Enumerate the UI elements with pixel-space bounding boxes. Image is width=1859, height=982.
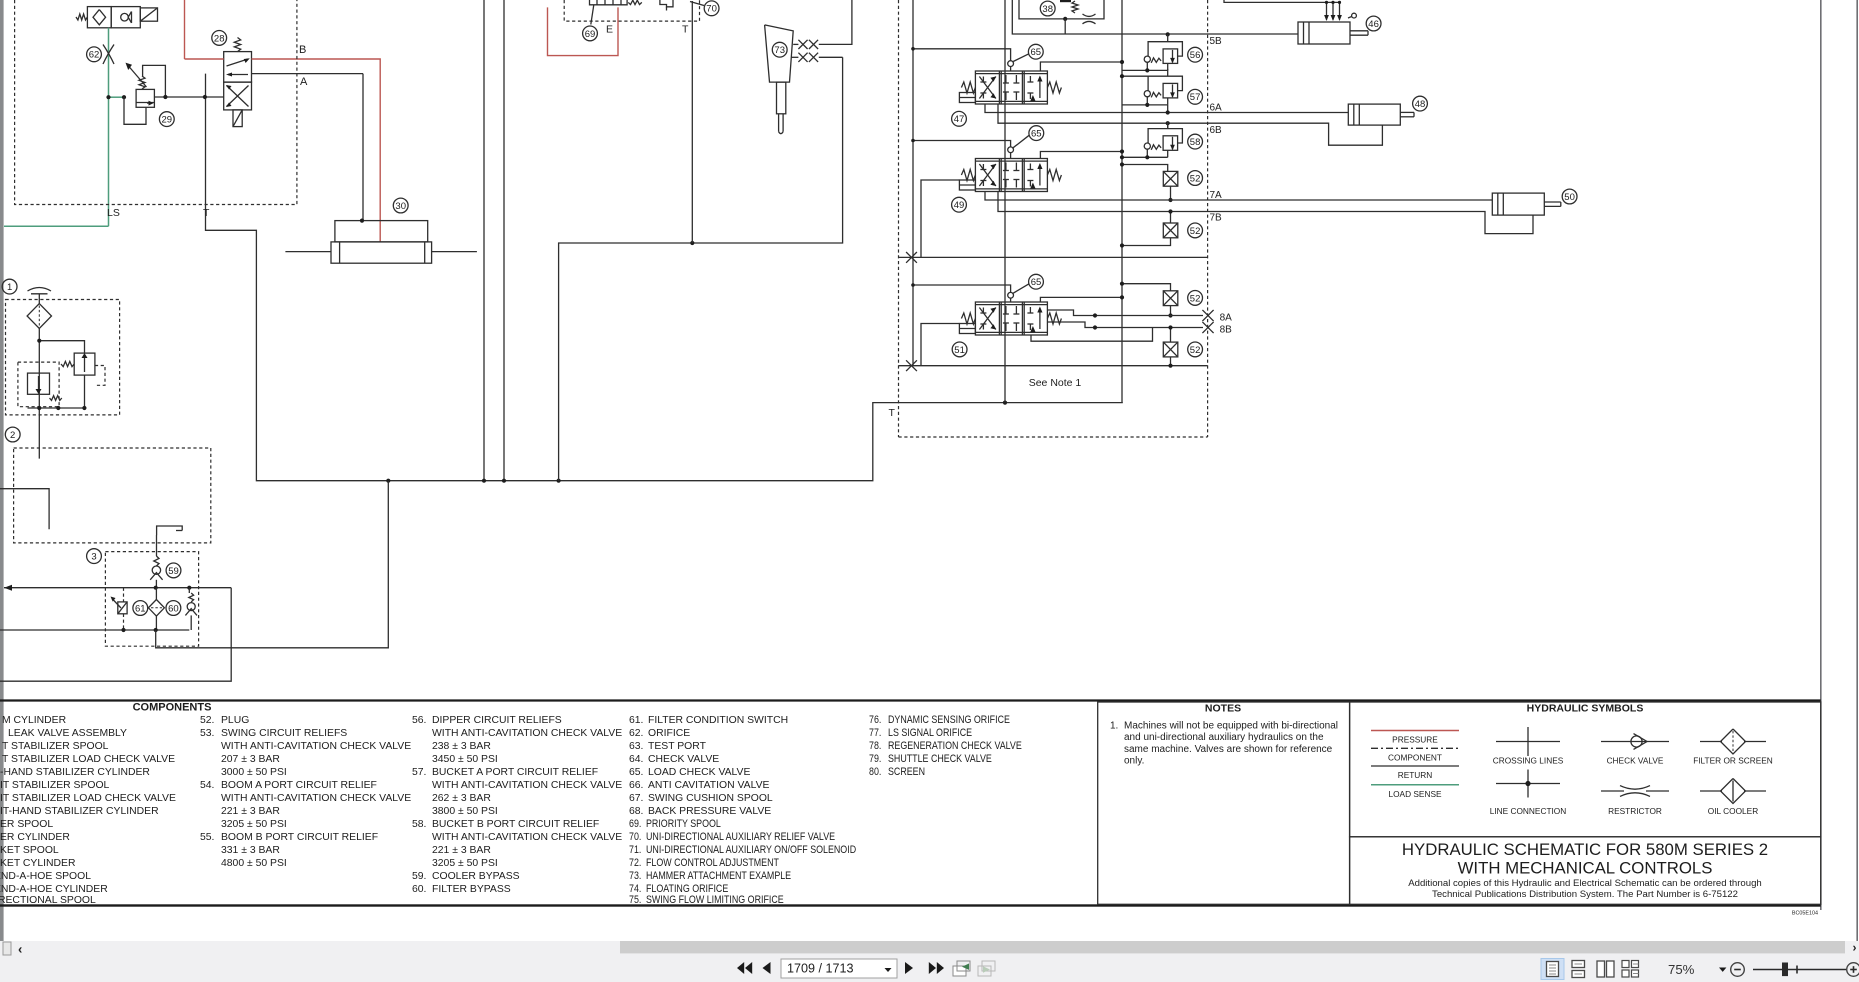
svg-text:51: 51 [954, 345, 965, 356]
wire hammer lower [819, 56, 843, 58]
circle label 49 [952, 197, 967, 212]
svg-text:DYNAMIC SENSING ORIFICE: DYNAMIC SENSING ORIFICE [888, 714, 1010, 726]
wire 7B [998, 192, 1533, 234]
wire B red [185, 58, 224, 60]
svg-text:OIL COOLER: OIL COOLER [1708, 806, 1758, 816]
svg-text:69: 69 [585, 29, 596, 40]
toolbar background [0, 941, 1859, 982]
dashed enclosure control valve left [898, 0, 900, 437]
svg-text:72.: 72. [629, 857, 641, 869]
circle label 52c [1188, 291, 1203, 306]
spool 51 [959, 302, 1061, 335]
svg-text:61.: 61. [629, 715, 643, 726]
circle label 50 [1562, 189, 1577, 204]
wire priority T drop [691, 1, 693, 243]
svg-text:65.: 65. [629, 767, 643, 778]
spool 47 [959, 71, 1061, 104]
check valve assembly diamond [93, 10, 106, 25]
svg-text:49: 49 [954, 200, 965, 211]
svg-text:58: 58 [1190, 137, 1201, 148]
svg-text:BOOM A PORT CIRCUIT RELIEF: BOOM A PORT CIRCUIT RELIEF [221, 780, 377, 791]
junction dot 38 [1063, 17, 1067, 21]
page number box [781, 959, 897, 978]
svg-text:331 ± 3 BAR: 331 ± 3 BAR [221, 845, 280, 856]
svg-text:61: 61 [135, 603, 146, 614]
svg-text:3450 ± 50 PSI: 3450 ± 50 PSI [432, 754, 498, 765]
svg-text:52: 52 [1190, 226, 1201, 237]
svg-text:BACK PRESSURE VALVE: BACK PRESSURE VALVE [648, 806, 771, 817]
svg-text:1709 / 1713: 1709 / 1713 [787, 962, 854, 976]
valve 28 spring [234, 38, 240, 52]
svg-text:SHUTTLE CHECK VALVE: SHUTTLE CHECK VALVE [888, 753, 992, 765]
svg-text:LINE CONNECTION: LINE CONNECTION [1490, 806, 1567, 816]
cylinder 46 piston [1303, 22, 1305, 44]
svg-text:PRESSURE: PRESSURE [1392, 735, 1438, 745]
plug 52 c [1163, 291, 1178, 306]
wire LS green vertical [108, 28, 110, 227]
svg-text:IT-HAND STABILIZER CYLINDER: IT-HAND STABILIZER CYLINDER [0, 806, 159, 817]
cylinder 46 rod [1350, 30, 1368, 32]
cylinder 30 rod right [432, 251, 477, 253]
svg-text:52.: 52. [200, 715, 214, 726]
svg-text:Additional copies of this Hydr: Additional copies of this Hydraulic and … [1408, 878, 1762, 889]
zoom out icon [1731, 963, 1745, 977]
svg-text:same machine. Valves are shown: same machine. Valves are shown for refer… [1124, 744, 1333, 755]
svg-text:63.: 63. [629, 741, 643, 752]
symbols box [1350, 702, 1821, 837]
svg-text:29: 29 [162, 115, 173, 126]
wire LS green stub to relief 29 [109, 96, 125, 98]
floating orifice 60 diamond [148, 600, 164, 617]
hscrollbar thumb [620, 941, 1845, 953]
wire supply vertical V2 [503, 0, 505, 481]
svg-text:BC05E104: BC05E104 [1792, 911, 1818, 917]
svg-text:4800 ± 50 PSI: 4800 ± 50 PSI [221, 858, 287, 869]
circle label 52a [1188, 171, 1203, 186]
wire 8A [1047, 310, 1203, 316]
svg-text:See Note 1: See Note 1 [1029, 377, 1082, 389]
valve 28 solenoid tail [233, 110, 242, 127]
solenoid 63 box [140, 8, 157, 21]
wire LS green bottom elbow [4, 225, 109, 227]
circle label 52d [1188, 342, 1203, 357]
svg-text:BUCKET B PORT CIRCUIT RELIEF: BUCKET B PORT CIRCUIT RELIEF [432, 819, 599, 830]
circuit relief 57 [1122, 69, 1182, 107]
svg-text:RECTIONAL SPOOL: RECTIONAL SPOOL [0, 895, 96, 906]
circle label 47 [952, 111, 967, 126]
relief valve 29 body [136, 89, 154, 107]
svg-text:only.: only. [1124, 756, 1144, 767]
svg-text:221 ± 3 BAR: 221 ± 3 BAR [221, 806, 280, 817]
cylinder 48 body [1348, 104, 1400, 125]
cylinder 30 rod left [285, 251, 331, 253]
valve 28 lower box [224, 82, 252, 110]
wire 7A [985, 192, 1492, 201]
wire cooler return loop [0, 588, 231, 682]
relief valve 29 adjust arrow [129, 66, 147, 87]
svg-text:LOAD SENSE: LOAD SENSE [1388, 789, 1441, 799]
svg-text:Technical Publications Distrib: Technical Publications Distribution Syst… [1432, 889, 1738, 900]
spool 49 [959, 159, 1061, 192]
svg-text:3800 ± 50 PSI: 3800 ± 50 PSI [432, 806, 498, 817]
svg-text:FILTER CONDITION SWITCH: FILTER CONDITION SWITCH [648, 715, 788, 726]
leader 65b [1013, 135, 1029, 147]
svg-text:T: T [203, 207, 210, 219]
svg-text:65: 65 [1031, 129, 1042, 140]
wire plug4 bottom [1170, 357, 1172, 366]
symbol oil cooler [1700, 790, 1722, 792]
hammer quick couplers lower [798, 53, 807, 62]
legend top border [0, 699, 1821, 701]
layout icon continuous [1572, 961, 1585, 968]
wire 60 vertical [155, 588, 157, 600]
spool49 actuator drop [921, 180, 959, 257]
circle label 2 [5, 427, 20, 442]
valve 28 upper arrow2 [228, 74, 248, 76]
svg-text:262 ± 3 BAR: 262 ± 3 BAR [432, 793, 491, 804]
svg-text:46: 46 [1368, 19, 1379, 30]
filter bottom wires [28, 407, 85, 409]
svg-text:77.: 77. [869, 727, 881, 739]
circle label 60 [166, 601, 181, 616]
svg-text:FILTER BYPASS: FILTER BYPASS [432, 884, 511, 895]
svg-text:8A: 8A [1220, 313, 1233, 324]
circuit relief 57 drop [1167, 105, 1169, 113]
svg-text:SWING CUSHION SPOOL: SWING CUSHION SPOOL [648, 793, 773, 804]
circuit relief 58 top [1167, 123, 1169, 128]
svg-text:SWING FLOW LIMITING ORIFICE: SWING FLOW LIMITING ORIFICE [646, 894, 784, 906]
svg-text:55.: 55. [200, 832, 214, 843]
svg-text:BUCKET A PORT CIRCUIT RELIEF: BUCKET A PORT CIRCUIT RELIEF [432, 767, 598, 778]
svg-text:FLOW CONTROL ADJUSTMENT: FLOW CONTROL ADJUSTMENT [646, 857, 779, 869]
svg-text:62.: 62. [629, 728, 643, 739]
svg-text:57.: 57. [412, 767, 426, 778]
svg-text:69.: 69. [629, 818, 641, 830]
wire relief 29 outlet [154, 96, 223, 98]
svg-text:IT STABILIZER LOAD CHECK VALVE: IT STABILIZER LOAD CHECK VALVE [0, 793, 176, 804]
svg-text:T: T [682, 24, 689, 36]
crossing blocked lower [906, 360, 917, 371]
main relief 38 solenoid fragment [1060, 0, 1071, 2]
junction dots relief 29 [163, 95, 167, 99]
svg-text:and uni-directional auxiliary: and uni-directional auxiliary hydraulics… [1124, 732, 1324, 743]
svg-text:CHECK VALVE: CHECK VALVE [648, 754, 719, 765]
svg-text:A: A [300, 76, 308, 88]
svg-text:CROSSING LINES: CROSSING LINES [1493, 756, 1564, 766]
svg-text:60.: 60. [412, 884, 426, 895]
svg-text:UNI-DIRECTIONAL AUXILIARY ON/O: UNI-DIRECTIONAL AUXILIARY ON/OFF SOLENOI… [646, 844, 856, 856]
leader line 69 [591, 5, 594, 25]
svg-text:3000 ± 50 PSI: 3000 ± 50 PSI [221, 767, 287, 778]
load check pilot o 51 [1008, 292, 1014, 298]
notes box [1098, 702, 1350, 904]
svg-text:62: 62 [89, 50, 100, 61]
junction dot cylinder30 [360, 219, 364, 223]
wire plug1 drop [1170, 186, 1172, 200]
svg-text:LEAK VALVE ASSEMBLY: LEAK VALVE ASSEMBLY [8, 728, 127, 739]
svg-text:ANTI CAVITATION VALVE: ANTI CAVITATION VALVE [648, 780, 770, 791]
check valve 59 spring [154, 556, 159, 566]
svg-text:47: 47 [954, 114, 965, 125]
wire 6A [985, 104, 1348, 113]
pilot feed 47 [913, 49, 1011, 61]
wire T-bus mid [559, 57, 843, 480]
wire plug2 top [1170, 212, 1172, 224]
coupler 8A [1202, 310, 1213, 321]
svg-text:59.: 59. [412, 871, 426, 882]
svg-text:1.: 1. [1110, 721, 1118, 732]
main relief 38 inner box [1019, 0, 1104, 19]
svg-text:76.: 76. [869, 714, 881, 726]
pilot feed 49 [913, 141, 1011, 147]
filter drop wire [38, 328, 40, 458]
main relief 38 outer box [1012, 0, 1166, 34]
svg-text:2: 2 [10, 430, 15, 441]
crossing blocked upper [906, 252, 917, 263]
svg-text:52: 52 [1190, 345, 1201, 356]
plug 52 a [1163, 171, 1178, 186]
cylinder 48 piston [1353, 104, 1355, 125]
junction dots on bottom bus [386, 479, 390, 483]
valve 28 upper arrow [227, 59, 249, 66]
circle label 57 [1188, 89, 1203, 104]
svg-text:53.: 53. [200, 728, 214, 739]
relief valve 29 pilot bracket [143, 65, 166, 97]
main relief 38 spring [1072, 1, 1078, 13]
wire plug3 top elbow [1122, 284, 1171, 291]
wire pilot into spool 47 [1010, 67, 1012, 72]
cylinder 50 rod [1544, 201, 1561, 203]
circuit relief 58 [1122, 121, 1182, 159]
drain line cyl46 [1224, 0, 1340, 2]
svg-text:FILTER OR SCREEN: FILTER OR SCREEN [1693, 756, 1773, 766]
svg-text:‹: ‹ [18, 942, 22, 957]
wire 8B [1047, 322, 1203, 328]
legend load sense line [1371, 784, 1459, 786]
relief valve 29 drain loop [124, 97, 146, 124]
wire plug4 top [1170, 328, 1172, 343]
page right border [1820, 0, 1822, 910]
wire 61 dashed drop [123, 588, 125, 602]
wire 5B line [1167, 33, 1298, 35]
main relief 38 venturi [1083, 14, 1096, 16]
symbol restrictor [1601, 790, 1624, 792]
cylinder 50 piston [1497, 193, 1499, 215]
dashed enclosure 2 [14, 448, 211, 543]
title block box [1350, 837, 1821, 905]
wire block line upper [899, 256, 1208, 258]
svg-text:68.: 68. [629, 806, 643, 817]
wire cooler inlet arrow [4, 587, 124, 589]
solenoid spring W [76, 14, 87, 20]
svg-text:-HAND STABILIZER CYLINDER: -HAND STABILIZER CYLINDER [0, 767, 150, 778]
check ball symbol [121, 13, 129, 21]
svg-text:KET SPOOL: KET SPOOL [0, 845, 59, 856]
svg-text:WITH ANTI-CAVITATION CHECK VAL: WITH ANTI-CAVITATION CHECK VALVE [432, 728, 622, 739]
hammer body 73 [765, 25, 794, 82]
dashed enclosure priority valve [564, 0, 699, 21]
zoom caret [1719, 968, 1726, 972]
svg-text:221 ± 3 BAR: 221 ± 3 BAR [432, 845, 491, 856]
circle label 69 [583, 26, 598, 41]
svg-text:LOAD CHECK VALVE: LOAD CHECK VALVE [648, 767, 750, 778]
svg-text:80.: 80. [869, 766, 881, 778]
wire B red right [252, 59, 381, 242]
junction dot T-bus [690, 241, 694, 245]
bypass relief spring [61, 361, 74, 366]
check valve 64 [187, 603, 195, 611]
circle label 38 [1040, 1, 1055, 16]
circuit relief 56 [1122, 34, 1182, 72]
hammer quick couplers upper [798, 40, 807, 49]
wire hammer stubs [793, 43, 798, 45]
wire valve70 stub [666, 7, 668, 11]
svg-text:LS: LS [107, 207, 120, 219]
svg-text:WITH ANTI-CAVITATION CHECK VAL: WITH ANTI-CAVITATION CHECK VALVE [221, 793, 411, 804]
wire bracket to 59 [156, 535, 158, 556]
load check pilot o 49 [1008, 147, 1014, 153]
filter bypass branch top [39, 341, 84, 353]
nav last page icon [929, 962, 936, 974]
legend return line [1371, 765, 1459, 767]
svg-text:73.: 73. [629, 870, 641, 882]
layout icon single page [1541, 959, 1564, 980]
svg-text:30: 30 [395, 201, 406, 212]
svg-text:WITH MECHANICAL CONTROLS: WITH MECHANICAL CONTROLS [1458, 859, 1713, 878]
svg-text:48: 48 [1415, 99, 1426, 110]
svg-text:8B: 8B [1220, 325, 1233, 336]
wire cooler top line [124, 587, 232, 589]
svg-text:75%: 75% [1668, 962, 1695, 977]
svg-text:END-A-HOE CYLINDER: END-A-HOE CYLINDER [0, 884, 108, 895]
circuit relief 57 link [1122, 75, 1148, 77]
svg-text:38: 38 [1042, 4, 1053, 15]
svg-text:3: 3 [91, 552, 96, 563]
wire cooler outlet [156, 481, 389, 648]
svg-text:52: 52 [1190, 293, 1201, 304]
breather arc [28, 288, 52, 292]
flow control 61 arrow [112, 599, 121, 609]
circle label 59 [166, 563, 181, 578]
wire block line lower [899, 365, 1208, 367]
svg-text:65: 65 [1031, 277, 1042, 288]
svg-text:7B: 7B [1210, 213, 1223, 224]
zoom slider thumb [1782, 963, 1788, 977]
leader 65c [1013, 284, 1029, 293]
wire plug2 bottom elbow [1122, 238, 1171, 246]
wire plug1 link [1122, 165, 1168, 172]
svg-text:58.: 58. [412, 819, 426, 830]
spool49 top right elbow [1040, 152, 1122, 159]
circle label 58 [1188, 134, 1203, 149]
svg-text:6A: 6A [1210, 103, 1223, 114]
hammer chisel rod [778, 114, 780, 132]
red option box [548, 7, 619, 55]
wire pilot into spool 51 [1010, 298, 1012, 302]
leader 65a [1013, 54, 1028, 62]
spool51 actuator drop [921, 324, 959, 366]
coupler 8B [1202, 322, 1213, 333]
svg-text:ER SPOOL: ER SPOOL [0, 819, 53, 830]
window right scrollbar divider [1856, 0, 1858, 941]
svg-text:IT STABILIZER SPOOL: IT STABILIZER SPOOL [0, 780, 110, 791]
svg-text:WITH ANTI-CAVITATION CHECK VAL: WITH ANTI-CAVITATION CHECK VALVE [432, 780, 622, 791]
cylinder 46 body [1298, 22, 1350, 44]
svg-text:COMPONENT: COMPONENT [1388, 752, 1442, 762]
left bypass valve box [28, 373, 50, 394]
check valve 64 spring [189, 593, 194, 602]
svg-text:73: 73 [774, 45, 785, 56]
plug 52 b [1163, 223, 1178, 238]
svg-text:DIPPER CIRCUIT RELIEFS: DIPPER CIRCUIT RELIEFS [432, 715, 562, 726]
check valve assembly box A [87, 7, 111, 28]
svg-text:75.: 75. [629, 894, 641, 906]
wire hammer upper return [819, 0, 852, 44]
cylinder 30 body [331, 242, 432, 263]
cylinder 48 rod [1400, 111, 1414, 113]
circle label 30 [393, 198, 408, 213]
wire A black [252, 73, 364, 75]
svg-text:B: B [299, 44, 306, 56]
svg-text:56.: 56. [412, 715, 426, 726]
legend bottom border [0, 904, 1821, 906]
drain orifice o [1352, 13, 1357, 18]
svg-text:3205 ± 50 PSI: 3205 ± 50 PSI [432, 858, 498, 869]
circle label 65c [1029, 274, 1044, 289]
wire 8B regen [1031, 328, 1153, 342]
svg-text:TEST PORT: TEST PORT [648, 741, 707, 752]
legend pressure line [1371, 730, 1459, 732]
prev view icon [953, 966, 966, 976]
wire supply bus 1005 [1004, 0, 1006, 403]
svg-text:T: T [889, 407, 896, 419]
dashed enclosure 3 [105, 552, 198, 647]
left bypass spring [50, 396, 62, 401]
page left grey edge strip [0, 0, 4, 944]
circle label 29 [159, 112, 174, 127]
layout icon two page scroll [1622, 961, 1629, 968]
svg-text:COMPONENTS: COMPONENTS [133, 702, 212, 714]
svg-text:66.: 66. [629, 780, 643, 791]
symbol check valve [1601, 741, 1669, 743]
svg-text:1: 1 [7, 282, 12, 293]
nav next page icon [905, 962, 913, 974]
svg-text:HYDRAULIC SYMBOLS: HYDRAULIC SYMBOLS [1527, 703, 1644, 715]
svg-text:50: 50 [1564, 192, 1575, 203]
wire bottom return bus [206, 74, 1123, 481]
wire A drop [362, 74, 364, 221]
leader line 70 [690, 2, 704, 6]
svg-text:PRIORITY SPOOL: PRIORITY SPOOL [646, 818, 721, 830]
svg-text:SCREEN: SCREEN [888, 766, 925, 778]
circle label 46 [1366, 16, 1381, 31]
wire 59 to line [155, 580, 157, 588]
svg-text:6B: 6B [1210, 125, 1223, 136]
svg-text:ER CYLINDER: ER CYLINDER [0, 832, 70, 843]
box2 bracket symbol [157, 526, 183, 535]
svg-text:238 ± 3 BAR: 238 ± 3 BAR [432, 741, 491, 752]
svg-text:HYDRAULIC SCHEMATIC FOR 580M S: HYDRAULIC SCHEMATIC FOR 580M SERIES 2 [1402, 840, 1768, 859]
box2 inlet stub [0, 489, 49, 530]
legend component line [1371, 747, 1459, 749]
svg-text:›: › [1853, 941, 1857, 955]
svg-text:NOTES: NOTES [1205, 703, 1241, 715]
next view icon [978, 966, 991, 976]
spool51 top right elbow [1040, 297, 1122, 302]
svg-text:WITH ANTI-CAVITATION CHECK VAL: WITH ANTI-CAVITATION CHECK VALVE [432, 832, 622, 843]
svg-text:END-A-HOE SPOOL: END-A-HOE SPOOL [0, 871, 91, 882]
svg-text:RETURN: RETURN [1398, 770, 1433, 780]
